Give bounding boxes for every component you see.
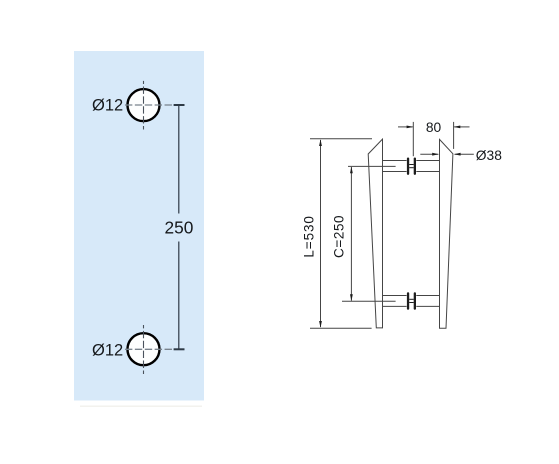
svg-text:Ø12: Ø12 <box>92 341 123 359</box>
svg-text:C=250: C=250 <box>332 215 347 258</box>
svg-text:Ø38: Ø38 <box>476 148 502 163</box>
svg-text:80: 80 <box>426 120 442 135</box>
svg-text:250: 250 <box>164 217 193 237</box>
svg-text:L=530: L=530 <box>302 215 317 257</box>
svg-text:Ø12: Ø12 <box>92 97 123 115</box>
